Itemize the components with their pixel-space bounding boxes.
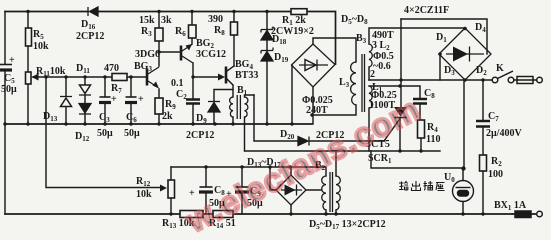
wire C2 branch [192, 77, 194, 124]
svg-text:3DG6: 3DG6 [135, 49, 160, 60]
label 输出插座 vector glyphs [399, 181, 445, 191]
wire C3 branch [104, 77, 106, 124]
resistor R5 10k [26, 9, 487, 218]
transistor BG2 [181, 44, 193, 63]
svg-text:~0.6: ~0.6 [373, 61, 391, 72]
wire bridge-s stubs [270, 167, 321, 214]
svg-text:50μ: 50μ [124, 128, 140, 139]
wire bottom bus [5, 213, 512, 215]
svg-text:+: + [189, 188, 195, 199]
wire y167 line [171, 167, 326, 176]
watermark [179, 90, 425, 240]
wire L1 bottom [368, 108, 370, 151]
wire zener branch [266, 12, 268, 125]
wire B1 winding stubs [233, 95, 254, 151]
wire L3 bottom link [312, 105, 356, 115]
thyristor SCR1 [394, 107, 407, 118]
transformer B2 [322, 172, 341, 212]
wire D13 branch [65, 77, 67, 124]
capacitor C8 snubber [413, 99, 427, 104]
svg-text:D5~D8: D5~D8 [341, 14, 368, 26]
capacitor C6 [126, 96, 137, 98]
svg-text:50μ: 50μ [1, 84, 17, 95]
resistor R9 2k [155, 98, 163, 114]
wire scr cathode line [245, 118, 440, 151]
arrow R12 wiper [160, 185, 167, 192]
arrow R11 wiper [32, 74, 39, 81]
transformer B3 [351, 44, 373, 112]
wire left vertical [4, 12, 6, 215]
svg-text:2CP12: 2CP12 [186, 130, 214, 141]
wire UJT emitter [193, 76, 218, 78]
wire rail19 [401, 19, 487, 54]
wire D9 net [214, 90, 233, 125]
svg-text:2CP12: 2CP12 [76, 31, 104, 42]
wire base rail [33, 76, 146, 78]
capacitor C9 [236, 186, 249, 188]
svg-text:+: + [111, 94, 117, 105]
diode D13 [61, 98, 72, 107]
transistor BG3 [147, 67, 159, 89]
glyph 插 [424, 181, 433, 190]
wire socket bottom [462, 202, 464, 215]
wire R12 feed [46, 77, 160, 188]
transistor BG4 BT33 [218, 67, 226, 84]
svg-text:0.1: 0.1 [171, 78, 184, 89]
wire UJT b1 [227, 79, 233, 97]
capacitor C8b [200, 186, 213, 188]
zener D18 [261, 31, 273, 41]
node dots [3, 10, 484, 216]
diode D12 [79, 104, 91, 114]
wire R3 branch [159, 12, 179, 67]
wire scr anode vertical [400, 19, 402, 107]
svg-text:110: 110 [426, 134, 440, 145]
wire R4 bottom [420, 138, 422, 151]
resistor R13 10k [180, 211, 203, 218]
svg-text:R1110k: R1110k [36, 66, 66, 78]
wire R12 branch [170, 167, 172, 214]
svg-text:3k: 3k [161, 15, 172, 26]
wire bridge2 bottom to socket [463, 80, 465, 168]
zener D19 [261, 52, 273, 62]
switch K [492, 71, 514, 83]
wire C9 branch [241, 167, 243, 214]
wire BG3 emitter to R9 [158, 89, 160, 124]
svg-text:2k: 2k [162, 111, 173, 122]
bridge rectifier D5-D8 [292, 44, 336, 87]
wire gate line to D20 [254, 95, 399, 141]
resistor R7 470 [112, 74, 127, 81]
fuse BX1 [512, 211, 542, 218]
resistor R4 110 [418, 120, 425, 138]
diode D16 [60, 7, 309, 146]
wire mid bus [5, 123, 312, 125]
svg-text:3CG12: 3CG12 [196, 49, 226, 60]
wire top bus [5, 12, 336, 65]
wire bridge2 left vertex drop [439, 54, 441, 80]
wire y80 line [369, 79, 492, 81]
potentiometer R12 [168, 180, 175, 198]
capacitor C2 [186, 100, 200, 104]
svg-text:+: + [138, 94, 144, 105]
svg-text:240T: 240T [306, 105, 328, 116]
socket U0 [453, 181, 474, 202]
diode D9 [208, 103, 220, 113]
wire D11 D12 branch [84, 77, 86, 124]
svg-text:+: + [9, 55, 15, 66]
bridge rectifier D1-D4 [439, 28, 491, 80]
resistor R3 15k [155, 28, 163, 41]
resistor R14 51 [213, 211, 233, 218]
wire R6 branch [191, 12, 193, 45]
svg-text:50μ: 50μ [97, 128, 113, 139]
resistor R8 390 [231, 22, 238, 35]
fuse top [517, 77, 542, 84]
glyph 座 [436, 183, 445, 191]
svg-text:BT33: BT33 [235, 70, 258, 81]
svg-text:10k: 10k [33, 41, 49, 52]
svg-text:390: 390 [208, 14, 223, 25]
wire R5 branch [27, 12, 29, 125]
wire out line [371, 151, 464, 181]
wire C8b branch [205, 167, 207, 214]
svg-text:BX1 1A: BX1 1A [494, 200, 527, 212]
glyph 输 [399, 182, 408, 191]
svg-text:15k: 15k [139, 15, 155, 26]
svg-text:K: K [496, 63, 504, 74]
wire L2 top link [369, 28, 464, 44]
wire bridge1 left [291, 65, 293, 124]
resistor R1 2k [291, 9, 307, 15]
diode D11 [80, 85, 91, 94]
wire R8 branch [233, 12, 235, 67]
wire C6 branch [130, 77, 132, 124]
wire UJT b2 [227, 66, 234, 71]
wire bridge1 bottom [312, 87, 314, 124]
wire C8 stub [400, 86, 420, 120]
wire L2 bottom to y80 [368, 67, 370, 80]
resistor R6 3k [189, 25, 197, 38]
wire L1 top line [369, 85, 400, 87]
diode D20 [298, 137, 308, 146]
wire B2 stubs [326, 151, 336, 214]
capacitor C3 [100, 96, 111, 98]
svg-text:2μ/400V: 2μ/400V [486, 128, 522, 139]
svg-text:100: 100 [488, 169, 503, 180]
svg-text:2: 2 [370, 69, 375, 80]
svg-text:10k: 10k [136, 189, 152, 200]
bridge rectifier D13-D17 [276, 175, 306, 205]
capacitor C7 [476, 121, 490, 127]
potentiometer R11 [26, 72, 32, 84]
wire BG2 collector [192, 63, 194, 77]
wire bottom fuse lead [512, 213, 537, 215]
resistor R2 100 [480, 155, 487, 171]
wire bridge1 top link [313, 38, 356, 62]
capacitor C5 [0, 65, 490, 193]
glyph 出 [412, 181, 421, 191]
svg-text:470: 470 [104, 63, 119, 74]
svg-text:D5~D17 13×2CP12: D5~D17 13×2CP12 [309, 219, 386, 231]
svg-text:4×2CZ11F: 4×2CZ11F [404, 5, 449, 16]
wire K to fuse [514, 79, 537, 81]
transformer B1 [230, 95, 248, 119]
wire C7 R2 branch [482, 80, 484, 214]
